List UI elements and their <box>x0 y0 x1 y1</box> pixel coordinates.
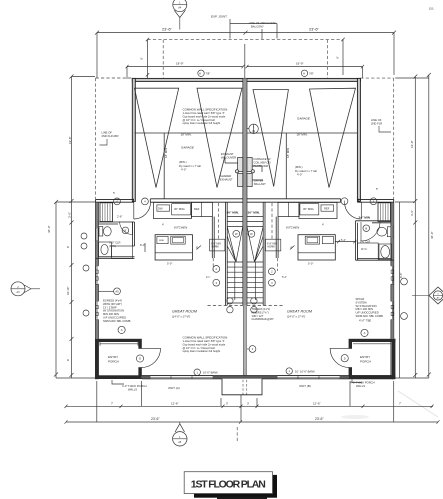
svg-text:2ND FLR ABV: 2ND FLR ABV <box>102 134 119 138</box>
svg-text:18' MIN.: 18' MIN. <box>297 133 308 137</box>
svg-text:A: A <box>121 328 123 332</box>
stair bottom dashed <box>208 305 284 307</box>
tag winders <box>233 230 240 237</box>
svg-text:4'-0" THICK PORCH: 4'-0" THICK PORCH <box>350 381 375 385</box>
garage R V1 <box>253 90 288 187</box>
svg-text:16'-10": 16'-10" <box>66 287 70 295</box>
tag egress left/right <box>118 326 125 333</box>
svg-text:A5: A5 <box>115 290 119 294</box>
bottom dim line 2 <box>66 421 438 423</box>
svg-text:U/F UNOCCUPIED: U/F UNOCCUPIED <box>103 316 126 320</box>
right bath walls <box>356 221 392 223</box>
house top wall right wing <box>357 199 393 202</box>
cropped next title below <box>217 497 267 499</box>
tag garage doors <box>114 198 121 205</box>
left bath door arc <box>120 222 133 235</box>
kitchen wall dashed extension left <box>212 258 214 271</box>
front window band right <box>277 376 340 378</box>
stair west wall left unit <box>225 202 227 305</box>
kitchen wall dashed extension right <box>276 258 278 271</box>
svg-text:KITCHEN: KITCHEN <box>174 226 188 230</box>
left wall window 1 <box>96 266 99 284</box>
balcony corner verticals <box>163 40 327 78</box>
svg-text:FURNACE W/: FURNACE W/ <box>254 157 271 161</box>
svg-text:46'-0": 46'-0" <box>47 225 51 233</box>
left kitchen counter <box>153 202 191 218</box>
svg-text:8'-0": 8'-0" <box>140 243 145 247</box>
svg-text:SINK: SINK <box>159 240 165 242</box>
front door left <box>142 348 161 367</box>
garage L V1 <box>135 88 179 187</box>
center line to garage <box>244 44 246 79</box>
common wall lower dashed <box>243 305 246 375</box>
svg-text:12'-6": 12'-6" <box>313 402 321 406</box>
svg-text:D: D <box>344 356 346 360</box>
front wall <box>142 376 395 379</box>
svg-text:DW: DW <box>158 207 163 211</box>
svg-text:LINE OF: LINE OF <box>371 118 382 122</box>
svg-text:(MIN): (MIN) <box>109 244 116 248</box>
svg-text:6'-5": 6'-5" <box>399 273 403 278</box>
headroom box left <box>210 239 225 251</box>
svg-text:B: B <box>125 229 127 233</box>
svg-text:13R / 12T: 13R / 12T <box>252 314 264 318</box>
right kitchen wall to stairs <box>276 217 278 258</box>
left bath sink <box>99 242 112 257</box>
left outer wall <box>96 199 99 378</box>
svg-text:MIN / 40F MIN: MIN / 40F MIN <box>356 307 374 311</box>
tick left <box>95 31 396 35</box>
headroom dashes stairs <box>219 203 272 239</box>
svg-text:16'-9": 16'-9" <box>296 62 304 66</box>
right short dim line <box>398 202 400 378</box>
svg-text:SWM ARC SBL COMB: SWM ARC SBL COMB <box>103 319 131 323</box>
front window band left <box>150 376 213 378</box>
svg-text:2ND FLR: 2ND FLR <box>371 122 382 126</box>
svg-text:12'-6": 12'-6" <box>171 402 179 406</box>
svg-text:13' / 2'SMP: 13' / 2'SMP <box>103 305 117 309</box>
svg-text:4'-0" THICK PORCH: 4'-0" THICK PORCH <box>122 384 147 388</box>
svg-text:D: D <box>139 357 141 361</box>
left storage closet <box>112 246 133 259</box>
svg-text:SPKLR: SPKLR <box>356 297 365 301</box>
svg-text:@ 16" O.C. w / Closed Cell: @ 16" O.C. w / Closed Cell <box>183 118 216 122</box>
garage entry door right <box>345 202 362 219</box>
left margin horiz connectors <box>56 77 95 379</box>
svg-text:LINE OF 2ND FLOOR: LINE OF 2ND FLOOR <box>249 21 276 25</box>
right margin dim col 46ft <box>427 73 431 378</box>
svg-text:EXHAUST: EXHAUST <box>220 177 233 181</box>
6ft vert dim right <box>341 38 344 75</box>
svg-text:EXHAUST: EXHAUST <box>221 152 234 156</box>
svg-text:SHARED: SHARED <box>220 174 231 178</box>
balcony line top <box>148 39 344 41</box>
svg-text:18'-9": 18'-9" <box>176 62 184 66</box>
stairs right unit treads <box>247 217 263 227</box>
svg-text:36" MIN.: 36" MIN. <box>248 211 260 215</box>
right bath door arc <box>361 222 380 241</box>
svg-text:5'-4": 5'-4" <box>341 239 346 242</box>
porch note leaders <box>112 380 362 385</box>
dim line 18'-9 left <box>126 65 245 79</box>
svg-text:18' MIN.: 18' MIN. <box>181 133 192 137</box>
right kitchen island <box>298 235 335 260</box>
svg-text:W/ STAGNATION: W/ STAGNATION <box>103 309 124 313</box>
tag front doors <box>136 355 143 362</box>
stairs left unit treads <box>227 217 243 227</box>
svg-text:GARAGE: GARAGE <box>181 146 195 150</box>
bottom dim line 1 <box>66 405 433 407</box>
right bath storage <box>357 243 378 260</box>
svg-text:A: A <box>364 331 366 335</box>
svg-text:REF: REF <box>324 207 330 211</box>
svg-text:4'-0": 4'-0" <box>297 173 302 177</box>
svg-text:UNIT (A): UNIT (A) <box>168 386 180 390</box>
svg-text:5'-0": 5'-0" <box>167 262 172 266</box>
center stoop <box>222 379 262 395</box>
porch left walls thick <box>95 339 395 379</box>
svg-text:18' MIN: 18' MIN <box>164 148 168 158</box>
svg-text:W: W <box>250 232 253 236</box>
svg-text:5'-0": 5'-0" <box>308 262 313 266</box>
right margin dim col 19'-8 <box>413 75 417 379</box>
elev marker right <box>429 287 443 304</box>
garage right wall <box>357 78 360 201</box>
svg-text:Gyp board each side 2x wood st: Gyp board each side 2x wood studs <box>183 342 226 346</box>
svg-text:10'-0" BANK: 10'-0" BANK <box>300 369 315 373</box>
right wall window 2 <box>391 301 394 319</box>
svg-text:Fly rated 1 x 7' tall: Fly rated 1 x 7' tall <box>295 169 317 173</box>
left wall bath window <box>96 228 99 241</box>
svg-text:(MIN.): (MIN.) <box>179 160 187 164</box>
svg-text:GREAT ROOM: GREAT ROOM <box>172 310 198 314</box>
right wall window 1 <box>391 266 394 284</box>
section marker bottom <box>173 432 187 446</box>
furnace left <box>238 158 243 172</box>
left pantry counter <box>191 202 212 216</box>
stairs left winders <box>227 227 243 263</box>
svg-text:HDRM: HDRM <box>268 246 275 249</box>
svg-text:1-Hour Fire-rated wall / 5/8": 1-Hour Fire-rated wall / 5/8" type 'X' <box>183 111 226 115</box>
exp joint bracket <box>230 19 277 39</box>
svg-text:GUARDRAIL@36": GUARDRAIL@36" <box>252 317 274 321</box>
svg-text:KITCHEN: KITCHEN <box>286 226 300 230</box>
svg-text:U/F UNOCCUPIED: U/F UNOCCUPIED <box>356 311 379 315</box>
stair east wall right unit <box>263 202 265 305</box>
svg-text:H: H <box>199 71 201 75</box>
elev marker left <box>11 282 25 296</box>
tag H right <box>301 70 307 76</box>
tags stair sides <box>213 266 220 273</box>
garage R V2 <box>310 88 356 187</box>
svg-text:LINE OF: LINE OF <box>102 131 113 135</box>
svg-text:W/ STAGNATION: W/ STAGNATION <box>356 304 377 308</box>
svg-text:WALLS: WALLS <box>128 387 137 391</box>
svg-text:ENTRY: ENTRY <box>108 355 118 359</box>
svg-text:GREAT ROOM: GREAT ROOM <box>287 310 313 314</box>
faint scan diagonal bottom right <box>398 391 438 417</box>
garage L V2 <box>197 88 242 187</box>
tags right margin <box>401 278 408 285</box>
svg-text:PORCH: PORCH <box>360 360 371 364</box>
tag A5 left wall <box>114 288 121 295</box>
left bath walls <box>98 222 134 224</box>
svg-text:3'-6": 3'-6" <box>68 212 72 218</box>
balcony label leader <box>261 29 263 39</box>
dim line 16'-9 right <box>246 65 365 78</box>
section marker top <box>173 0 187 12</box>
svg-text:@ 16" O.C. w / Closed Cell: @ 16" O.C. w / Closed Cell <box>183 346 216 350</box>
svg-text:W.I.C.: W.I.C. <box>361 248 368 251</box>
svg-text:PLATFORM: PLATFORM <box>254 164 269 168</box>
stairs left lower treads <box>227 262 243 303</box>
leader lines for 2nd flr labels <box>100 139 108 145</box>
tag common wall <box>249 124 258 133</box>
svg-text:W/ LOUVER: W/ LOUVER <box>221 155 236 159</box>
right closet <box>378 203 391 222</box>
right outer wall <box>391 199 394 378</box>
porch right walls thick <box>349 339 396 342</box>
svg-text:SYSTEM: SYSTEM <box>356 300 368 304</box>
svg-text:(MIN.): (MIN.) <box>295 165 303 169</box>
tag below stairs common wall <box>249 346 256 353</box>
svg-text:spray foam insulation full hei: spray foam insulation full height <box>183 349 221 353</box>
svg-text:COIL ABV ON: COIL ABV ON <box>254 160 271 164</box>
vent circles <box>235 170 238 173</box>
stairs right lower treads <box>247 262 263 303</box>
svg-text:23'-6": 23'-6" <box>151 417 160 421</box>
svg-text:10'-0" BANK: 10'-0" BANK <box>203 371 218 375</box>
common wall gray <box>243 78 247 305</box>
svg-text:B: B <box>365 226 367 230</box>
headroom box right <box>266 239 281 251</box>
left wall window 2 <box>96 301 99 319</box>
porch small dim left <box>100 342 138 346</box>
left toilet <box>99 227 103 237</box>
svg-text:DRYER: DRYER <box>254 179 263 183</box>
right wing 2nd floor line <box>360 78 393 199</box>
svg-text:BALCONY: BALCONY <box>251 25 264 29</box>
svg-text:18' MIN: 18' MIN <box>286 148 290 158</box>
svg-text:SWM ARC SBL COMB: SWM ARC SBL COMB <box>356 314 384 318</box>
svg-text:23'-6": 23'-6" <box>309 27 320 32</box>
house top wall left wing <box>96 199 134 202</box>
6ft vert dim left <box>146 38 149 78</box>
leader lines <box>225 157 263 180</box>
right pantry counter <box>278 202 299 216</box>
svg-text:4"x7" TBE: 4"x7" TBE <box>359 318 371 322</box>
svg-text:36" MIN.: 36" MIN. <box>227 211 239 215</box>
svg-text:19'-8": 19'-8" <box>68 136 72 144</box>
svg-text:HDRM: HDRM <box>212 246 219 249</box>
svg-text:BALLAST: BALLAST <box>254 182 266 186</box>
tags stair bottom <box>227 298 233 304</box>
left kitchen wall to stairs <box>212 217 214 258</box>
svg-text:COMMON WALL SPECIFICATION:: COMMON WALL SPECIFICATION: <box>183 108 229 112</box>
porch small dim right <box>353 343 391 345</box>
svg-text:EGRESS (4'x4'): EGRESS (4'x4') <box>103 299 122 303</box>
svg-text:1-Hour Fire-rated wall / 5/8": 1-Hour Fire-rated wall / 5/8" type 'X' <box>183 339 226 343</box>
svg-text:WDW (36"x48"): WDW (36"x48") <box>103 302 122 306</box>
svg-text:7/8": 7/8" <box>309 72 314 76</box>
svg-text:3'-0" CLR: 3'-0" CLR <box>360 240 370 243</box>
bottom dim ext lines <box>97 381 394 422</box>
dashed lines <box>96 40 394 441</box>
svg-text:RISERS (7¾"): RISERS (7¾") <box>252 310 269 314</box>
svg-text:30" RNG: 30" RNG <box>303 207 314 211</box>
island dim arrow right <box>290 240 356 250</box>
stairs right winders <box>247 227 263 263</box>
left margin dim col 19'-8 <box>70 75 74 379</box>
svg-text:4'-0": 4'-0" <box>181 168 186 172</box>
svg-text:(14'-0" x 17'-8"): (14'-0" x 17'-8") <box>172 315 190 319</box>
tags left margin <box>81 233 87 239</box>
garage bottom wall left <box>133 199 135 203</box>
ext line top right <box>393 33 395 75</box>
svg-text:UNIT (B): UNIT (B) <box>299 384 311 388</box>
svg-text:10': 10' <box>295 369 299 373</box>
svg-text:REF: REF <box>194 207 200 211</box>
svg-text:TREADS (11"±): TREADS (11"±) <box>252 307 271 311</box>
right toilet <box>387 227 391 237</box>
svg-text:COMMON WALL SPECIFICATION:: COMMON WALL SPECIFICATION: <box>183 336 229 340</box>
svg-text:3'-0" CLR: 3'-0" CLR <box>109 241 121 245</box>
garage top wall <box>132 78 360 81</box>
svg-text:EXP. JOINT: EXP. JOINT <box>211 15 227 19</box>
island dim arrow left <box>145 243 201 252</box>
right bath sink <box>379 244 392 260</box>
svg-text:23'-6": 23'-6" <box>315 417 324 421</box>
left margin dim col 46ft <box>54 200 58 378</box>
svg-text:(14'-0" x 17'-8"): (14'-0" x 17'-8") <box>287 315 305 319</box>
svg-text:MIN 40F MIN: MIN 40F MIN <box>103 312 119 316</box>
svg-text:30" RNG: 30" RNG <box>174 207 185 211</box>
front door right <box>330 348 349 367</box>
right wall bath window <box>391 226 394 239</box>
svg-text:Fly rated 1 x 7' tall: Fly rated 1 x 7' tall <box>179 164 201 168</box>
garage bottom wall right <box>247 199 341 202</box>
svg-text:spray foam insulation full hei: spray foam insulation full height <box>183 121 221 125</box>
svg-text:PORCH: PORCH <box>108 360 119 364</box>
garage clear line left <box>135 133 243 199</box>
left closet <box>100 203 113 222</box>
garage left wall <box>132 78 135 201</box>
svg-text:7/8": 7/8" <box>206 72 211 76</box>
svg-text:EB: EB <box>429 7 434 11</box>
right margin connectors <box>395 78 429 378</box>
dim line top overall <box>97 32 394 34</box>
svg-text:1¾": 1¾" <box>206 276 210 279</box>
svg-text:1ST FLOOR PLAN: 1ST FLOOR PLAN <box>191 479 266 491</box>
garage clear line right <box>247 133 357 199</box>
svg-text:5'-2": 5'-2" <box>282 276 287 279</box>
svg-text:ENTRY: ENTRY <box>360 355 370 359</box>
stair arrows <box>235 262 256 300</box>
svg-text:WALLS: WALLS <box>356 384 365 388</box>
svg-text:46'-0": 46'-0" <box>430 231 434 239</box>
svg-text:W: W <box>235 232 238 236</box>
left kitchen island <box>155 235 192 260</box>
tag bath doors <box>122 227 129 234</box>
svg-text:GARAGE: GARAGE <box>297 117 311 121</box>
svg-text:H: H <box>303 71 305 75</box>
left wing 2nd floor line <box>96 78 132 199</box>
wall infill shading <box>96 203 394 339</box>
garage entry door left <box>134 202 151 219</box>
tags front windows <box>194 369 200 375</box>
svg-text:23'-6": 23'-6" <box>162 27 173 32</box>
svg-text:24" MIN: 24" MIN <box>359 215 371 219</box>
furnace right <box>247 158 252 172</box>
center line below stoop <box>236 427 238 441</box>
right kitchen counter <box>299 202 337 218</box>
svg-text:19'-8": 19'-8" <box>410 140 414 148</box>
svg-text:2'-6": 2'-6" <box>117 215 122 219</box>
svg-text:3'-6": 3'-6" <box>410 210 414 216</box>
ext line top left <box>96 33 98 78</box>
tag H left <box>198 70 204 76</box>
svg-text:Gyp board each side 2x wood st: Gyp board each side 2x wood studs <box>183 114 226 118</box>
